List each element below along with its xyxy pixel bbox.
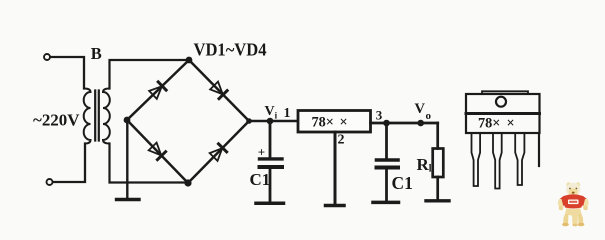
ground (C1 output)	[373, 201, 399, 205]
node bridge top vertex	[186, 57, 193, 64]
svg-text:2: 2	[338, 133, 345, 148]
svg-text:~220V: ~220V	[33, 111, 80, 130]
svg-text:78××: 78××	[478, 116, 515, 132]
diode VD bottom-left	[149, 143, 166, 160]
wire primary top	[50, 57, 84, 89]
transformer B secondary winding	[103, 89, 110, 144]
wire RL to ground	[436, 177, 439, 199]
package tab step	[482, 91, 528, 94]
node bridge right vertex	[246, 118, 252, 124]
ground (bridge)	[117, 198, 140, 201]
wire to RL	[436, 123, 439, 149]
transformer B core	[95, 91, 99, 141]
wire primary bottom	[53, 144, 85, 183]
wire secondary top to bridge	[110, 60, 190, 89]
package 78xx body	[466, 94, 540, 133]
node pin 3 junction	[383, 120, 390, 127]
package leg 1	[472, 133, 481, 186]
resistor RL	[433, 149, 444, 178]
capacitor C1 input	[260, 157, 283, 160]
diode VD top-right	[210, 82, 227, 99]
bridge edge top-right	[189, 60, 249, 121]
node bridge bottom vertex	[184, 179, 191, 186]
svg-text:VD1~VD4: VD1~VD4	[194, 39, 267, 59]
watermark bear	[558, 182, 589, 226]
svg-text:C1: C1	[250, 170, 271, 189]
node Vi junction	[267, 118, 274, 125]
wire regulator output	[371, 122, 438, 125]
wire C1 input drop	[269, 121, 272, 157]
package leg 2	[493, 133, 502, 189]
bridge edge bottom-right	[188, 121, 249, 183]
capacitor C1 output	[377, 158, 399, 162]
wire secondary bottom to bridge	[110, 144, 189, 183]
bridge edge left-top	[127, 60, 189, 120]
ground (pin 2)	[326, 204, 345, 208]
svg-text:3: 3	[376, 108, 383, 123]
wire pin 2 to ground	[334, 132, 337, 204]
package divider line	[466, 112, 540, 115]
wire bridge negative to ground	[126, 120, 128, 198]
package right stub	[538, 133, 540, 166]
diode VD bottom-right	[210, 144, 227, 161]
svg-text:B: B	[91, 44, 102, 63]
terminal bottom-left	[47, 179, 53, 185]
bridge edge left-bottom	[127, 120, 188, 183]
ground (RL)	[426, 199, 449, 202]
svg-text:C1: C1	[392, 173, 413, 193]
transformer B primary winding	[84, 89, 91, 144]
wire bridge output to regulator pin 1	[249, 120, 298, 123]
node bridge left vertex	[124, 117, 131, 124]
svg-text:1: 1	[284, 106, 291, 121]
package mounting hole	[496, 97, 506, 107]
terminal top-left	[44, 54, 50, 60]
package leg 3	[515, 133, 524, 185]
node Vo	[417, 120, 424, 127]
svg-text:78××: 78××	[312, 114, 348, 130]
wire C1 output drop	[385, 123, 388, 158]
diode VD top-left	[149, 82, 166, 99]
regulator U1 78xx box	[298, 111, 371, 133]
ground (C1 input)	[256, 201, 284, 205]
